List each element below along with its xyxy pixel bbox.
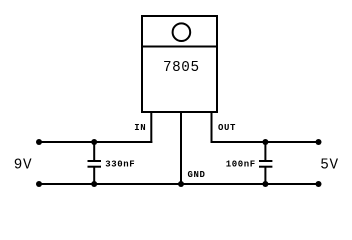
svg-text:330nF: 330nF	[105, 159, 135, 169]
node junction C1 bottom	[91, 181, 97, 187]
capacitor C2 100nF	[259, 142, 272, 184]
svg-text:100nF: 100nF	[226, 159, 256, 169]
regulator U1 mounting hole	[173, 23, 191, 41]
node input terminal bottom	[36, 181, 42, 187]
node output terminal top	[316, 139, 322, 145]
node junction C2 bottom	[262, 181, 268, 187]
wire input top rail	[39, 141, 152, 143]
node output terminal bottom	[316, 181, 322, 187]
pin OUT lead	[211, 112, 213, 143]
svg-text:7805: 7805	[163, 60, 200, 76]
svg-text:5V: 5V	[320, 157, 338, 173]
svg-text:IN: IN	[134, 123, 146, 133]
svg-text:OUT: OUT	[218, 123, 236, 133]
wire output top rail	[211, 141, 319, 143]
node junction C1 top	[91, 139, 97, 145]
node junction C2 top	[262, 139, 268, 145]
pin IN lead	[150, 112, 152, 143]
node junction GND pin	[178, 181, 184, 187]
node input terminal top	[36, 139, 42, 145]
regulator U1 7805 package outline	[142, 16, 217, 112]
pin GND lead	[180, 112, 182, 184]
svg-text:9V: 9V	[14, 158, 32, 174]
svg-text:GND: GND	[188, 170, 206, 180]
wire ground bottom rail	[39, 183, 319, 185]
capacitor C1 330nF	[88, 142, 102, 184]
